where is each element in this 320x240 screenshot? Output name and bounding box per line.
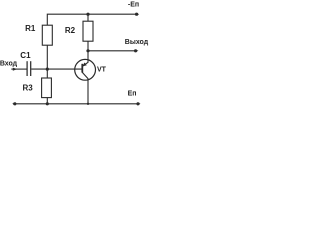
wire output (88, 50, 135, 52)
wire R3 bottom lead (46, 98, 48, 104)
transistor VT emitter arrow (82, 63, 86, 67)
junction node output / emitter (86, 49, 89, 52)
arrow input (13, 68, 17, 71)
wire R2 top lead (87, 14, 89, 21)
wire R3 top lead (46, 69, 48, 78)
svg-text:R3: R3 (23, 84, 34, 93)
wire collector lead (82, 72, 88, 103)
resistor R2 (83, 21, 93, 41)
arrow top rail -Ep (135, 13, 138, 16)
svg-text:R1: R1 (25, 24, 36, 33)
junction node top rail / R2 (86, 13, 89, 16)
svg-text:R2: R2 (65, 26, 76, 35)
svg-text:C1: C1 (20, 51, 31, 60)
wire R1 bottom lead (46, 45, 48, 69)
junction node collector / bottom rail (87, 103, 89, 105)
transistor VT base bar (81, 64, 83, 73)
junction node base (46, 68, 49, 71)
arrow bottom rail right Ep (136, 102, 139, 105)
wire base (31, 68, 82, 70)
svg-text:Еп: Еп (128, 91, 137, 98)
wire top rail (47, 14, 136, 25)
junction node R3 / bottom rail (46, 102, 49, 105)
wire emitter lead (82, 51, 88, 67)
arrow output (134, 49, 137, 52)
svg-text:Выход: Выход (125, 39, 149, 46)
svg-text:Вход: Вход (0, 61, 18, 68)
node bottom rail left end (13, 102, 16, 105)
capacitor C1 (27, 61, 31, 76)
svg-text:-Еп: -Еп (128, 1, 139, 8)
svg-text:VT: VT (97, 67, 107, 74)
wire input (11, 68, 26, 70)
resistor R3 (42, 78, 52, 98)
resistor R1 (42, 25, 52, 45)
transistor VT circle (75, 59, 96, 80)
wire bottom rail (15, 103, 138, 105)
wire R2 bottom lead (87, 41, 89, 51)
